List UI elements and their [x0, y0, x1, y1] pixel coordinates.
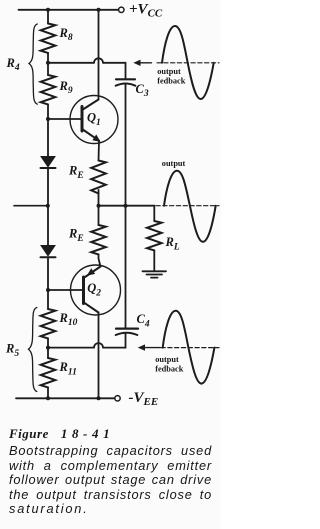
node junction dot R8/R9/C3 wire [46, 61, 50, 65]
brace R4 around R8,R9 [29, 24, 37, 104]
node junction dot rail/R8 [46, 8, 50, 12]
svg-text:output: output [155, 355, 179, 364]
resistor R10 [41, 309, 56, 338]
resistor RE1 [91, 161, 106, 194]
resistor R11 [41, 358, 56, 387]
diode D1 [41, 157, 55, 167]
node junction dot Q2 base tap [46, 288, 50, 292]
svg-text:Q2: Q2 [87, 281, 101, 298]
transistor Q1 collector lead [83, 100, 99, 110]
node junction dot input node [46, 204, 50, 208]
wire Q1 emitter to RE1 [98, 141, 101, 161]
svg-text:-VEE: -VEE [129, 390, 159, 408]
wire Q2 collector to bottom rail [98, 313, 100, 399]
node junction dot output node [97, 204, 101, 208]
wire RL to ground [153, 250, 155, 271]
arrow bottom feedback pointing to C4 branch [143, 347, 161, 349]
node junction dot R10/R11/C4 wire [46, 346, 50, 350]
capacitor C3 [116, 78, 135, 80]
transistor Q1 emitter lead with arrow [83, 130, 99, 141]
svg-text:C4: C4 [137, 312, 150, 329]
wire bootstrap bottom to R10/R11 junction [48, 347, 94, 349]
svg-text:R11: R11 [59, 360, 77, 377]
terminal -VEE open circle [115, 396, 120, 401]
wire D1 to input node [47, 168, 49, 246]
svg-text:RE: RE [68, 226, 84, 243]
svg-text:R10: R10 [59, 311, 78, 328]
svg-text:R8: R8 [59, 26, 73, 43]
brace R5 around R10,R11 [29, 308, 37, 392]
wire RE1 to output node [98, 190, 100, 225]
wire C3 branch to C4 [125, 206, 127, 328]
resistor R8 [41, 24, 56, 53]
wire output node to RL [99, 206, 155, 221]
wire bottom supply rail [16, 397, 115, 399]
node junction dot Q1 base tap [46, 117, 50, 121]
wire hop over collector line [94, 58, 103, 62]
wire R11 to bottom rail [47, 387, 49, 398]
waveform bottom output feedback sine [161, 347, 219, 349]
node junction dot rail/Q2 collector [97, 396, 101, 400]
wire RE2 to Q2 emitter [99, 254, 101, 266]
transistor Q2 collector lead [84, 303, 98, 313]
wire R8 to bootstrap node [47, 53, 49, 75]
caption Figure 18-41 [9, 427, 212, 517]
resistor RE2 [91, 225, 106, 254]
svg-text:fedback: fedback [155, 364, 184, 373]
transistor Q1 circle [70, 96, 118, 144]
transistor Q1 base bar [81, 107, 84, 132]
node junction dot C3 branch/output wire [124, 204, 128, 208]
svg-text:RL: RL [165, 235, 180, 252]
svg-text:output: output [162, 159, 186, 168]
wire hop over Q2 collector line [94, 343, 103, 348]
wire Q1 base lead [48, 118, 82, 120]
svg-text:output: output [157, 67, 181, 76]
resistor R9 [41, 75, 56, 104]
svg-text:C3: C3 [136, 82, 149, 99]
svg-text:R4: R4 [6, 56, 20, 73]
svg-text:RE: RE [68, 163, 84, 180]
waveform middle output sine [156, 205, 219, 207]
wire C4 to bootstrap bottom wire [103, 333, 126, 347]
wire D2 to Q2 base node and R10 [47, 257, 49, 309]
transistor Q2 base bar [82, 277, 85, 304]
wire bootstrap top from R8/R9 junction to C3 with hop [48, 62, 94, 64]
wire R8 top lead [47, 10, 49, 24]
wire R9 to Q1 base node and diode D1 [47, 104, 49, 156]
resistor RL [147, 221, 162, 250]
node junction dot rail/Q1 collector [97, 8, 101, 12]
wire C3 to output node [125, 84, 127, 206]
node junction dot rail/R11 [46, 396, 50, 400]
wire top supply rail [19, 9, 119, 11]
wire Q2 base lead [48, 289, 84, 291]
waveform top output feedback sine [157, 62, 219, 64]
svg-text:R9: R9 [59, 79, 73, 96]
diode D2 [41, 246, 55, 256]
transistor Q2 emitter lead with arrow [84, 267, 100, 278]
capacitor C4 [116, 328, 138, 330]
svg-text:R5: R5 [5, 341, 19, 358]
svg-text:+VCC: +VCC [129, 1, 163, 19]
wire R10 to bootstrap node [47, 338, 49, 358]
terminal +VCC open circle [119, 7, 124, 12]
wire input lead going left [14, 205, 48, 207]
transistor Q2 circle [71, 265, 121, 315]
svg-text:Q1: Q1 [87, 111, 101, 128]
arrow top feedback pointing to C3 branch [138, 62, 152, 64]
ground symbol [143, 270, 167, 272]
wire Q1 collector to rail [98, 10, 100, 100]
svg-text:fedback: fedback [157, 76, 186, 85]
